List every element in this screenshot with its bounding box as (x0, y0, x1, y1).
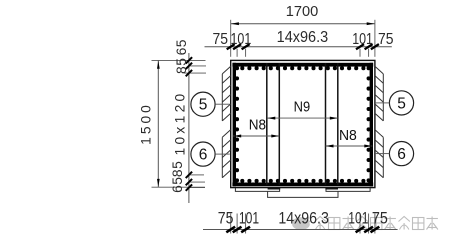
interior rebar line w4 (337, 63, 339, 185)
bottom chain extension lines (230, 214, 232, 234)
top rebar band (232, 63, 373, 67)
svg-text:75: 75 (218, 210, 234, 228)
top chain extension lines (236, 49, 238, 57)
svg-text:14x96.3: 14x96.3 (277, 29, 329, 46)
callout N8 right leader (326, 145, 373, 147)
balloon 5 right (389, 91, 413, 115)
svg-text:N8: N8 (339, 127, 357, 144)
bottom key outline lower (268, 191, 338, 197)
svg-text:10x120: 10x120 (172, 90, 187, 155)
balloon leader 6 left (215, 153, 230, 155)
svg-text:N8: N8 (249, 116, 266, 133)
left rebar band (233, 63, 236, 187)
watermark logo blob (292, 218, 310, 230)
left upper shear keys (222, 66, 230, 121)
callout N9 leader (267, 117, 338, 119)
svg-text:101: 101 (352, 31, 373, 48)
right upper shear keys (375, 66, 383, 121)
svg-text:N9: N9 (294, 98, 311, 115)
top chain dim line (205, 46, 392, 48)
balloon leader 5 right (376, 102, 390, 104)
svg-text:65: 65 (170, 177, 185, 193)
svg-text:101: 101 (231, 31, 252, 48)
bottom key tab right (325, 188, 338, 190)
callout N8 left leader (233, 135, 279, 137)
svg-text:1500: 1500 (139, 102, 154, 145)
balloon leader 6 right (376, 153, 390, 155)
svg-text:85: 85 (170, 161, 185, 177)
bottom rebar band (232, 183, 373, 187)
bottom key tab left (268, 188, 281, 190)
svg-text:14x96.3: 14x96.3 (278, 210, 329, 228)
balloon 6 right (389, 142, 413, 166)
dim 1500 extension top (152, 59, 206, 61)
right rebar band (370, 63, 373, 187)
svg-text:1700: 1700 (286, 4, 319, 20)
svg-text:101: 101 (239, 210, 259, 228)
box outline (segment cross-section) (231, 60, 375, 187)
balloon 6 left (191, 142, 215, 166)
bottom chain dim line (203, 229, 398, 231)
svg-text:85: 85 (174, 58, 189, 74)
svg-text:101: 101 (348, 210, 368, 228)
svg-text:75: 75 (372, 210, 388, 228)
left lower shear keys (222, 130, 230, 178)
dim 1700 line (231, 23, 375, 25)
dim 1500 extension bottom (152, 186, 206, 188)
left chain dim line (188, 53, 190, 203)
right lower shear keys (375, 130, 383, 178)
top chain ticks (227, 44, 235, 49)
bottom key outline right (326, 188, 370, 191)
svg-text:6: 6 (199, 147, 208, 164)
svg-text:65: 65 (174, 39, 189, 55)
left chain extension lines (189, 65, 206, 67)
svg-text:5: 5 (199, 97, 208, 114)
svg-text:5: 5 (397, 95, 406, 112)
interior rebar line w3 (325, 63, 327, 185)
left chain ticks (186, 57, 192, 63)
dim 1700 extension lines (230, 20, 232, 57)
bottom key outline left (235, 188, 279, 191)
balloon 5 left (191, 92, 215, 116)
dim 1500 line (157, 60, 159, 187)
watermark text 公众号图木舟资料档 (approximated glyphs) (315, 217, 438, 230)
svg-text:75: 75 (213, 31, 229, 48)
balloon leader 5 left (215, 103, 230, 105)
bottom chain ticks (226, 227, 235, 233)
svg-text:6: 6 (397, 146, 406, 163)
interior rebar line w2 (278, 63, 280, 185)
svg-text:75: 75 (378, 31, 394, 48)
interior rebar line w1 (266, 63, 268, 185)
